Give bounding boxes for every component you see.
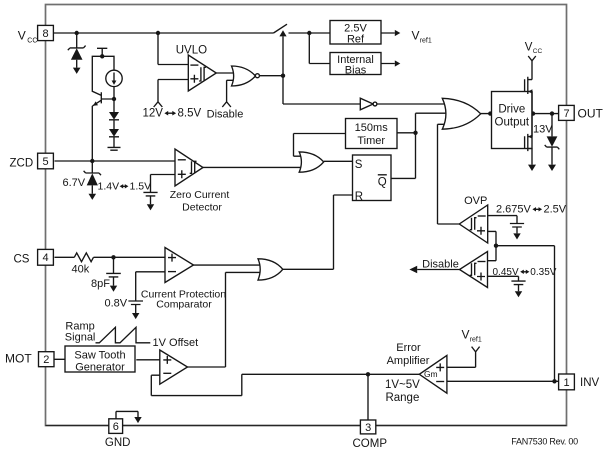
svg-text:2.675V: 2.675V [496, 204, 532, 216]
svg-text:6.7V: 6.7V [63, 177, 86, 189]
svg-text:CC: CC [27, 38, 37, 45]
svg-text:Output: Output [495, 117, 530, 129]
svg-text:Signal: Signal [65, 332, 96, 344]
svg-text:Amplifier: Amplifier [387, 355, 430, 367]
svg-text:V: V [18, 29, 26, 43]
svg-text:1.4V: 1.4V [98, 181, 120, 193]
svg-text:Ref: Ref [347, 34, 365, 46]
svg-text:ref1: ref1 [420, 37, 432, 44]
svg-text:1: 1 [563, 377, 569, 389]
svg-text:Drive: Drive [498, 104, 525, 116]
svg-text:3: 3 [365, 422, 371, 434]
svg-text:0.8V: 0.8V [105, 298, 128, 310]
svg-text:2: 2 [43, 354, 49, 366]
svg-text:Range: Range [385, 392, 419, 404]
svg-text:GND: GND [105, 437, 131, 449]
svg-text:UVLO: UVLO [176, 44, 207, 56]
svg-text:COMP: COMP [353, 438, 388, 450]
svg-text:7: 7 [563, 108, 569, 120]
svg-text:Error: Error [396, 342, 421, 354]
svg-text:Zero Current: Zero Current [170, 189, 230, 201]
svg-text:Q: Q [378, 177, 387, 189]
svg-text:1V Offset: 1V Offset [153, 337, 199, 349]
svg-text:4: 4 [43, 252, 49, 264]
svg-text:0.45V: 0.45V [493, 267, 519, 278]
svg-text:8.5V: 8.5V [178, 108, 202, 120]
svg-text:CS: CS [14, 254, 30, 266]
svg-text:0.35V: 0.35V [530, 267, 556, 278]
svg-text:MOT: MOT [5, 352, 32, 366]
svg-text:OVP: OVP [464, 195, 487, 207]
svg-text:Generator: Generator [75, 361, 125, 373]
svg-text:8: 8 [43, 28, 49, 40]
svg-text:Timer: Timer [357, 135, 385, 147]
svg-text:5: 5 [43, 156, 49, 168]
svg-text:ZCD: ZCD [10, 158, 34, 170]
svg-text:12V: 12V [143, 108, 164, 120]
svg-text:40k: 40k [72, 263, 90, 275]
svg-text:Saw Tooth: Saw Tooth [74, 349, 125, 361]
svg-text:8pF: 8pF [91, 278, 110, 290]
svg-text:150ms: 150ms [355, 122, 389, 134]
svg-text:Gm: Gm [424, 369, 438, 379]
svg-text:Detector: Detector [182, 202, 222, 214]
svg-text:2.5V: 2.5V [544, 204, 567, 216]
svg-text:Disable: Disable [207, 109, 244, 121]
svg-text:Comparator: Comparator [156, 298, 212, 310]
svg-text:6: 6 [113, 421, 119, 433]
svg-text:CC: CC [533, 48, 543, 55]
svg-text:R: R [355, 191, 363, 203]
svg-text:Disable: Disable [422, 258, 459, 270]
svg-text:V: V [525, 42, 533, 54]
svg-text:OUT: OUT [578, 107, 604, 121]
svg-text:Bias: Bias [345, 64, 367, 76]
svg-text:V: V [462, 328, 470, 342]
svg-text:13V: 13V [533, 123, 553, 135]
svg-text:1V~5V: 1V~5V [385, 379, 420, 391]
svg-text:ref1: ref1 [470, 337, 482, 344]
svg-text:S: S [355, 159, 363, 171]
svg-text:FAN7530 Rev. 00: FAN7530 Rev. 00 [511, 436, 578, 446]
svg-text:1.5V: 1.5V [130, 181, 152, 193]
svg-text:INV: INV [580, 377, 600, 389]
svg-text:V: V [412, 28, 420, 42]
